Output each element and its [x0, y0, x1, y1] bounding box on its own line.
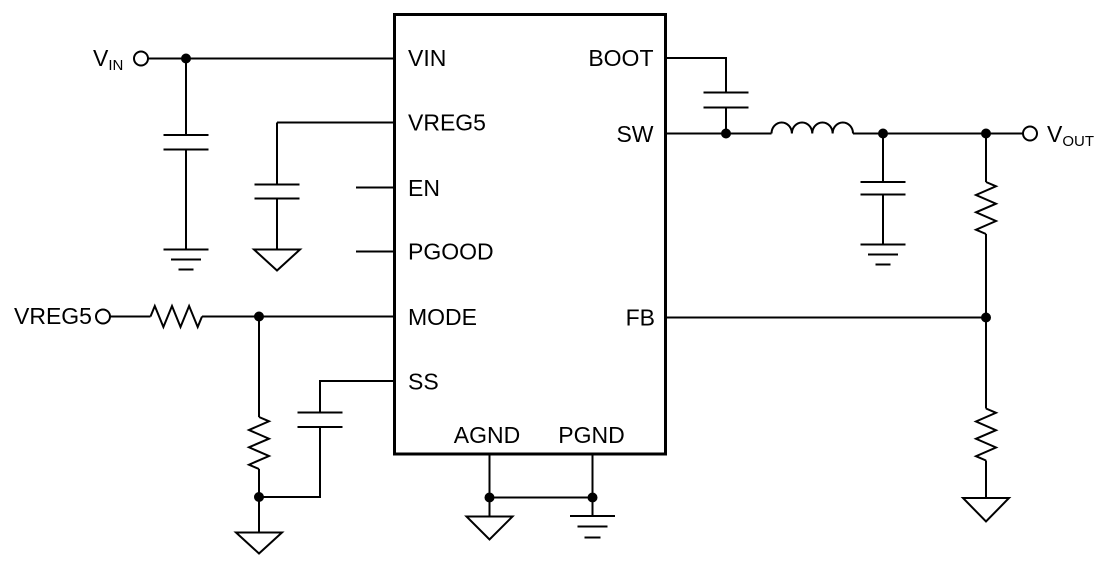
wire BOOT pin [665, 58, 726, 92]
capacitor C2 (VREG5 bypass) [255, 185, 300, 199]
svg-text:SW: SW [616, 121, 653, 147]
wire MODE node down to R2 [258, 317, 260, 418]
resistor R2 (MODE pulldown) [249, 417, 269, 469]
node MODE junction [254, 312, 264, 322]
wire VIN terminal to VIN pin [148, 58, 395, 60]
svg-text:PGND: PGND [558, 422, 624, 448]
wire node to C5 [259, 428, 320, 497]
wire C3 to SW node [725, 109, 727, 134]
terminal VOUT circle [1023, 127, 1037, 141]
resistor R1 (MODE series) [151, 306, 203, 327]
ground (triangle) under R2 [236, 533, 282, 554]
wire FB node to R4 [985, 318, 987, 409]
wire node to ground triangle [258, 497, 260, 533]
node SW/BOOT junction [721, 129, 731, 139]
wire FB pin to node [665, 317, 986, 319]
wire R3 to FB node [985, 234, 987, 318]
wire node to C1 [185, 59, 187, 135]
node R2/C5 junction [254, 492, 264, 502]
wire VREG5 pin horizontal [277, 122, 395, 124]
ground (earth) PGND [570, 516, 615, 538]
wire C5 to SS pin [320, 381, 395, 412]
wire R4 to ground triangle [985, 461, 987, 499]
wire VOUT node to R3 [985, 134, 987, 183]
svg-text:MODE: MODE [408, 304, 477, 330]
svg-text:FB: FB [626, 305, 655, 331]
terminal VIN circle [134, 52, 148, 66]
wire PGND node to earth [592, 498, 594, 517]
resistor R4 (feedback bottom) [976, 409, 996, 461]
node VIN junction [181, 54, 191, 64]
ground (triangle) under C2 [254, 250, 300, 271]
wire PGOOD stub [356, 251, 395, 253]
node AGND junction [485, 493, 495, 503]
resistor R3 (feedback top) [976, 182, 996, 234]
wire AGND pin down [489, 454, 491, 498]
wire AGND to PGND [490, 497, 593, 499]
svg-text:VIN: VIN [408, 45, 446, 71]
inductor L1 [772, 122, 854, 133]
capacitor C4 (output) [861, 182, 906, 195]
node VOUT junction [981, 129, 991, 139]
wire C1 to ground [185, 151, 187, 250]
IC U1 [395, 15, 666, 455]
svg-text:AGND: AGND [454, 422, 520, 448]
capacitor C5 (soft start) [298, 413, 343, 428]
wire R1 to MODE pin [202, 316, 395, 318]
capacitor C3 (bootstrap) [704, 93, 749, 108]
svg-text:PGOOD: PGOOD [408, 239, 494, 265]
ground (earth) under C4 [861, 245, 906, 265]
wire C4 to ground [882, 196, 884, 245]
ground (triangle) AGND [467, 517, 513, 540]
svg-text:SS: SS [408, 369, 439, 395]
node L1/C4 junction [878, 129, 888, 139]
svg-text:VREG5: VREG5 [14, 303, 92, 329]
wire SW pin [665, 133, 772, 135]
wire AGND node to triangle [489, 498, 491, 517]
wire VREG5 down to C2 [276, 123, 278, 184]
node FB junction [981, 313, 991, 323]
node PGND junction [588, 493, 598, 503]
wire node to C4 [882, 134, 884, 182]
terminal VREG5 circle [96, 310, 110, 324]
wire C2 to ground [276, 200, 278, 250]
svg-text:VREG5: VREG5 [408, 110, 486, 136]
svg-text:EN: EN [408, 175, 440, 201]
wire PGND pin down [592, 454, 594, 498]
wire VREG5 terminal to R1 [110, 316, 151, 318]
svg-text:BOOT: BOOT [588, 45, 653, 71]
capacitor C1 (input) [164, 135, 209, 150]
ground (earth) under C1 [164, 250, 209, 270]
ground (triangle) under R4 [963, 498, 1009, 522]
wire EN stub [356, 187, 395, 189]
wire R2 to node [258, 469, 260, 497]
wire L1 to VOUT terminal [853, 133, 1023, 135]
